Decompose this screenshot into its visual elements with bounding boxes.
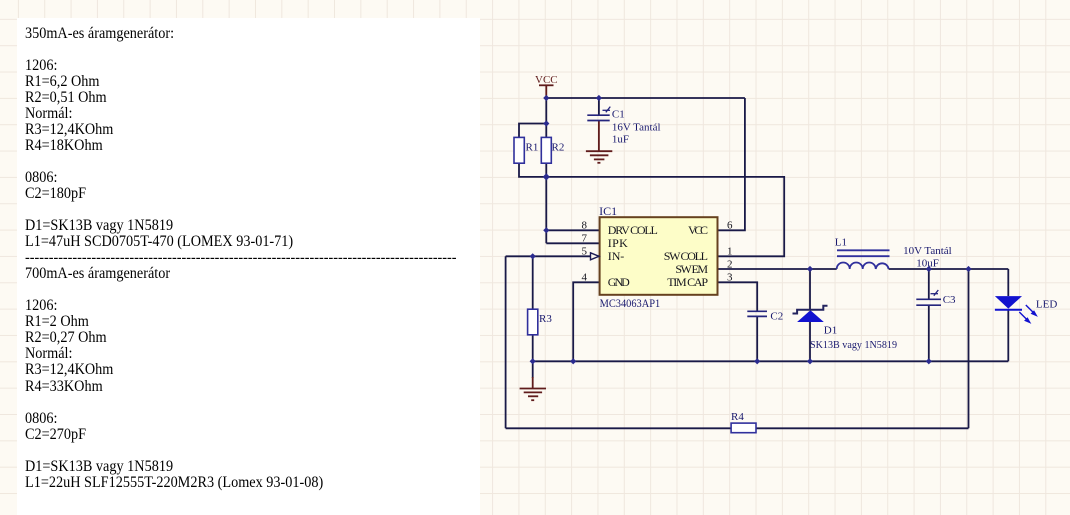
wire feedback bottom right <box>756 427 969 429</box>
svg-text:DRV COLL: DRV COLL <box>608 223 658 237</box>
junction C1 tap on VCC rail <box>596 95 602 101</box>
wire LED top stub <box>1007 269 1009 296</box>
wire feedback top <box>546 177 784 256</box>
svg-text:VCC: VCC <box>535 74 558 86</box>
junction feedback tap on output wire <box>965 266 971 272</box>
svg-text:R2: R2 <box>552 142 565 154</box>
junction D1 / ground rail <box>807 358 813 364</box>
svg-text:L1: L1 <box>835 237 847 249</box>
junction dots <box>530 95 972 365</box>
junction pin8 tap <box>543 227 549 233</box>
junction R3 / ground rail <box>530 358 536 364</box>
wire C2 bottom stub <box>756 316 758 361</box>
junction R3 tap on pin5 wire <box>530 253 536 259</box>
wire vertical R2 branch <box>545 98 547 243</box>
svg-text:SW COLL: SW COLL <box>664 249 708 263</box>
wire output after coil <box>889 268 1009 270</box>
capacitor C2 <box>747 311 767 316</box>
resistor R3 <box>528 309 538 335</box>
pin numbers <box>582 220 734 284</box>
junction VCC rail / R divider <box>543 95 549 101</box>
svg-text:3: 3 <box>727 272 733 284</box>
ground GND2 (R3) <box>520 377 546 400</box>
capacitor C1 <box>587 115 609 120</box>
svg-text:LED: LED <box>1036 299 1057 311</box>
inductor L1 <box>837 250 890 269</box>
wire R1 bottom branch <box>519 163 546 177</box>
wire C3 bottom stub <box>928 305 930 361</box>
wire feedback right vertical <box>968 269 970 428</box>
svg-text:TIM CAP: TIM CAP <box>667 275 708 289</box>
junction C3 tap on output wire <box>926 266 932 272</box>
svg-text:2: 2 <box>727 259 733 271</box>
wire R1 top branch <box>519 124 546 138</box>
wire D1 bottom stub <box>809 322 811 361</box>
junction C3 / ground rail <box>926 358 932 364</box>
svg-text:4: 4 <box>582 272 588 284</box>
svg-text:6: 6 <box>727 220 733 232</box>
junction pin4 / ground rail <box>570 358 576 364</box>
junction D1 tap on output wire <box>807 266 813 272</box>
svg-text:R1: R1 <box>526 142 539 154</box>
svg-text:VCC: VCC <box>688 223 708 237</box>
svg-text:7: 7 <box>582 233 588 245</box>
svg-text:1: 1 <box>727 246 733 258</box>
svg-text:SW EM: SW EM <box>675 262 708 276</box>
wire pin7 stub <box>546 242 599 244</box>
pin5 input triangle <box>591 253 600 260</box>
svg-text:R4: R4 <box>731 411 744 423</box>
svg-text:C3: C3 <box>943 294 956 306</box>
wire pin6 <box>718 98 745 230</box>
op-amp IC1 MC34063AP1 body <box>600 217 718 295</box>
svg-text:IN-: IN- <box>608 249 625 263</box>
svg-text:1uF: 1uF <box>612 134 629 146</box>
wire ground rail <box>533 360 1009 362</box>
svg-text:IC1: IC1 <box>599 204 617 218</box>
power VCC symbol <box>539 85 554 98</box>
pin names <box>608 223 709 289</box>
junction R1-R2 bottom / feedback node <box>543 173 550 180</box>
svg-text:D1: D1 <box>824 325 837 337</box>
resistor R4 <box>731 423 756 433</box>
wire pin5 <box>506 255 600 257</box>
wire feedback bottom left <box>506 427 731 429</box>
svg-text:R3: R3 <box>539 313 552 325</box>
wire pin3 C2 <box>718 282 758 311</box>
svg-text:10V Tantál: 10V Tantál <box>903 245 952 257</box>
capacitor C3 <box>916 299 941 305</box>
wire feedback left vertical <box>505 256 507 428</box>
wire R3 gnd stub <box>532 361 534 378</box>
svg-text:SK13B vagy 1N5819: SK13B vagy 1N5819 <box>810 339 897 351</box>
svg-text:IPK: IPK <box>608 236 628 250</box>
resistor R1 <box>514 137 524 163</box>
wire pin4 <box>573 282 599 361</box>
wire top rail VCC <box>546 97 745 99</box>
wire LED bottom stub <box>1007 309 1009 361</box>
wire R3 top stub <box>532 256 534 309</box>
svg-text:GND: GND <box>608 275 630 289</box>
LED <box>995 296 1036 322</box>
junction C2 / ground rail <box>754 358 760 364</box>
svg-text:C1: C1 <box>612 109 625 121</box>
left text panel <box>17 18 480 515</box>
svg-text:MC34063AP1: MC34063AP1 <box>600 296 661 310</box>
ground GND1 (C1) <box>586 121 612 163</box>
wire C1 stub <box>598 98 600 115</box>
diode D1 <box>793 306 828 322</box>
wire pin8 stub <box>546 229 599 231</box>
svg-text:5: 5 <box>582 246 588 258</box>
junction R1-R2 top <box>543 120 549 126</box>
wire pin2 output <box>718 268 837 270</box>
svg-text:8: 8 <box>582 220 588 232</box>
wire D1 top stub <box>809 269 811 310</box>
svg-text:C2: C2 <box>770 311 783 323</box>
wire R3 bottom stub <box>532 335 534 362</box>
svg-text:16V Tantál: 16V Tantál <box>612 122 661 134</box>
resistor R2 <box>541 137 551 163</box>
wire C3 top stub <box>928 269 930 299</box>
